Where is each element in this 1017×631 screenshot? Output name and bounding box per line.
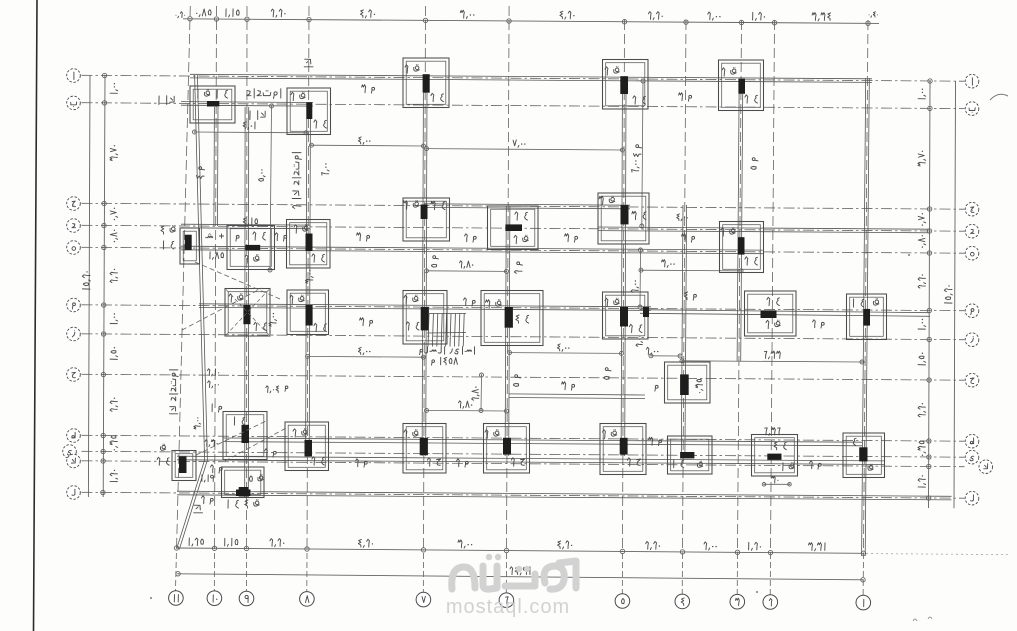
rotated label M4 on left slanted edge top [196,167,204,179]
label Q4 left of col-11 footing [172,227,176,231]
bottom dimension label ١,٢٠ [760,546,761,547]
left dimension label ٢,٢٠ [110,269,118,283]
grid row ح axis line [82,374,965,380]
right inner dimension line [929,81,931,508]
top dimension label ٣,٣٤ [828,13,831,21]
label 2,00 left area [218,384,219,385]
right dimension label ١,٠٠ [918,89,926,99]
column footing (rows F-G, cols 10-9) [225,289,270,337]
top dimension label ٠,٨٥ [208,10,211,15]
stair mid landing line [427,332,466,335]
beam label م ٤ at (690,291.5) [694,294,697,297]
slanted building edge line (imtedad KA), upper segment [195,75,205,460]
left dimension tick row A [102,73,106,77]
grid row ك axis line [82,461,965,467]
right dimension tick row F [927,308,931,312]
wall column on beam right of col-5 footing [643,307,649,317]
beam label م ٢ at (818,319.5) [821,322,824,325]
beam label م ٣ at (655,437) [659,440,662,443]
small column footing (rows D-E, col 11) [180,228,200,264]
left dimension label ١,٠٠ [110,83,118,93]
beam label م ٢ at (361,458.5) [364,461,367,464]
right dimension label ٢,٢٠ [918,403,926,417]
left dimension tick row C [102,201,106,205]
grid column 7 axis line [424,6,426,551]
axis bubble ٧ bottom [416,592,431,607]
left dimension tick row F [102,303,106,307]
column footing (rows F-G, col 5) [603,292,649,339]
column footing (rows H-T, col 11 area) [223,412,267,460]
slanted building edge line, lower segment to bottom-left [177,460,205,549]
rotated label KA bottom-left edge [194,505,203,513]
dimension 5,00 vertical line at x=271 [270,106,272,270]
bottom dimension label ١,٢٥ [201,539,204,544]
column footing (rows F-G, col 6) [481,291,543,346]
beam along row TA (tta) [223,442,862,446]
axis bubble ط right [965,434,979,448]
right dimension label ٠,٣٥ [918,441,926,456]
beam label م ٣ at (568,381.5) [572,384,575,387]
column footing (rows F-G, col 7) [403,291,447,345]
top dimension tick at column 10 [214,17,218,21]
axis bubble حـ left [67,368,81,382]
top dimension label ٢,٢٠ [284,13,285,14]
label M2 left of footing [219,467,222,470]
left outer boundary line [88,76,90,498]
beam along row E [181,250,763,254]
grid column 4 axis line [683,20,687,551]
axis bubble ز right [965,333,979,347]
grid column 11 stub to bubble [175,553,178,591]
right dimension label ٠,٧٠ [918,213,926,226]
right dimension label ٣,٧٠ [918,151,926,167]
beam along row D (right part) [598,231,930,233]
right dimension tick row C [927,207,931,211]
axis bubble و right [965,304,979,318]
axis bubble ى left [63,445,77,459]
label M small near 2,04 [285,386,288,389]
vertical beam on column 7 [422,93,423,456]
label 4,01 [254,122,256,129]
left dimension label ١,٥٠ [110,347,118,359]
grid column 10 axis line [215,6,217,551]
faint dotted extension of bottom dimension line to page edge [866,554,1011,555]
axis bubble ز left [67,327,81,341]
column footing (row K, col 4) [668,436,713,474]
dashed diagonal near footing Q bottom-left [196,421,266,455]
axis bubble ١٠ bottom [207,591,222,606]
watermark mostaql logo (gray) [452,561,576,589]
rotated label M 0,35 inside col-4 footing [696,379,703,393]
right dimension label ١,٢٠ [918,475,926,487]
axis bubble ٢ bottom [763,595,778,610]
grid row أ axis line [82,75,965,81]
svg-text:mostaql.com: mostaql.com [446,596,570,618]
top dimension label ١,٢٠ [764,16,765,17]
column footing (row H, col 4) [665,362,711,403]
grid row ز axis line [82,334,965,340]
bottom dimension label ٢,٢٠ [283,543,284,544]
bottom dimension tick at column 9 [244,546,248,550]
axis bubble ٩ bottom [239,591,254,606]
grid column 3 axis line [738,20,742,551]
axis bubble هـ right [965,246,979,260]
axis bubble ط left [67,429,81,443]
column footing (row A, col 5) [603,60,649,110]
beam label م ٣ at (571,233.5) [575,236,578,239]
grid row ى axis line [82,451,965,457]
left dimension tick row T [101,433,105,437]
top dimension tiny label 0,20 [184,15,185,16]
left dimension tick row H [101,372,105,376]
left dimension tick row K [101,459,105,463]
column footing (row G, col 1) [847,294,887,340]
grid column 9 axis line [246,6,249,551]
dimension 4,01 line under footing row B [195,131,307,134]
left dimension tick row B [102,101,106,105]
dimension 3,00 between columns 4 and 3 [641,269,741,272]
top dimension line [183,19,879,24]
axis bubble ك right [979,460,993,474]
bottom dimension tick at column 5 [620,549,624,553]
grid column 8 stub to bubble [306,553,308,591]
beam label م ٢ at (270,448.5) [273,451,276,454]
label M2 left of col-6 footing [472,300,475,303]
axis bubble ١ bottom [856,595,871,610]
dashed diagonal brace from col-11 footing to footing F9 [195,262,280,299]
right dimension tick row Y [927,455,931,459]
grid column 6 stub to bubble [505,553,507,593]
vertical beam on column 5 [621,94,622,456]
top dimension tick at column 5 [622,20,626,24]
grid column 9 stub to bubble [246,553,248,591]
rotated label M5 on column 5 lower [604,368,611,380]
label Ain2 left of bottom col-11 footing [167,458,169,460]
bottom dimension tick at column 7 [421,548,425,552]
grid column 4 stub to bubble [681,553,683,594]
top dimension tick at column 6 [507,19,511,23]
small arc mark top-right corner [990,94,1008,100]
bottom dimension tick at column 6 [504,548,508,552]
rotated label imtedad KA on left slanted edge [169,370,178,414]
dimension 6,00 vertical right of column 5 [642,81,643,226]
axis bubble ٨ bottom [300,592,315,607]
right dimension label ١,٥٠ [918,353,926,365]
beam label م ٣ at (368,84.5) [372,87,375,90]
grid row ب axis line [82,103,965,109]
axis bubble ٥ bottom [615,594,630,609]
vertical beam on column 1 [862,78,866,556]
column footing (rows T-Y, col 6) [484,424,530,474]
left dimension tick row D [102,223,106,227]
rotated label 3,00 near column 8 between rows E and F [305,270,313,283]
tiny dimension label at right end of top line [877,14,878,15]
grid column 5 axis line [623,20,625,551]
top dimension tick at column 7 [423,18,427,22]
axis bubble ك left [67,454,81,468]
overall bottom dimension line 24.91 [178,574,863,580]
left inner dimension line [103,76,105,498]
right overall dimension label 15,20 [944,285,952,303]
bottom dimension label ٣,٣١ [824,543,826,551]
column footing (row G, col 2) [745,291,797,336]
label KA 1 under row B beam [261,111,266,117]
vertical beam on column 6 [505,206,506,456]
rotated label M5 on column 3 [751,158,758,170]
bottom dimension label ١,١٥ [235,539,238,544]
right dimension tick row L [927,496,931,500]
dimension 6,33 between columns 4 and 1 [682,361,862,362]
label shin with plus [206,236,213,238]
bottom dimension label ٤,٢٠ [571,545,572,546]
label Q5 right [259,476,262,479]
label 2,00 right of 4,00 [657,351,658,352]
grid column 8 axis line [307,6,309,551]
axis bubble ب right [965,102,979,116]
dimension 2,80 between columns 7 and 6 upper [427,270,507,273]
right dimension tick row E [927,251,931,255]
grid column 3 stub to bubble [736,553,738,594]
label Ain1 left of col-11 footing [172,241,174,243]
right dimension tick row G [927,337,931,341]
left dimension label ٣,٧٠ [110,145,118,161]
left dimension tick row E [102,245,106,249]
bottom dimension tick at column 8 [305,547,309,551]
grid row ه axis line [82,247,965,253]
left dimension tick row L [101,490,105,494]
rotated dimension 2,00 near column 4 [639,250,642,307]
beam M2 between rows F and G (right part) [640,313,930,316]
right dimension tick row T [927,439,931,443]
page border scan line (left edge) [34,0,38,631]
bottom dimension tick at column 10 [212,546,216,550]
label Q left of bottom col-11 footing [162,445,165,448]
left dimension label ١,٠٠ [110,313,118,323]
stair label asayir alsolm [474,347,476,355]
beam along row C between footings [424,207,630,208]
label KA 1 on row B beam [170,96,175,102]
beam along row K (kaf) [177,460,884,465]
column footing (rows T-Y, col 8) [285,422,329,471]
beam label م ٢ at (470,233.5) [473,236,476,239]
column footing (rows C-D, col 6) [488,206,539,250]
beam stub along row D left cluster [181,227,310,230]
beam along row F (waw) [199,307,651,310]
bottom dimension line [177,548,864,553]
axis bubble ٣ bottom [730,594,745,609]
beam label م ٢ at (815,460.5) [818,463,821,466]
dimension 4,00 between columns 6 and 5 at row H [510,352,622,355]
grid row ل axis line [82,492,965,498]
label 1,85 below footing A7 [221,253,224,258]
label M1 above-left of footing [219,406,222,409]
axis bubble ٦ bottom [499,593,514,608]
rotated dimension 2,80 vertical near column 6 [480,375,483,411]
beam label م ٣ at (363,232.5) [367,235,370,238]
beam label م ٣ at (688,233.5) [692,236,695,239]
axis bubble حـ right [965,373,979,387]
column footing (rows D-E, col 3) [720,222,764,273]
dimension 4,00 between columns 8 and 7 at row H [308,355,424,358]
column footing (rows C-D, col 7) [403,198,450,241]
left dimension label ٠,٨٠ [110,230,117,243]
dimension 7,00 between columns 7 and 5 [427,149,623,150]
right dimension tick row K [927,464,931,468]
stair flight hatch lines [428,314,429,347]
right dimension tick row B [928,106,932,110]
rotated label M2 right of 2,80 [514,262,522,273]
axis bubble هـ left [67,241,81,255]
bottom dimension label ٣,٠٠ [471,544,472,545]
axis bubble ١١ bottom [169,591,184,606]
left dimension label ١,٢٠ [110,470,118,482]
top dimension label ٤,٢٠ [573,15,574,16]
grid column 2 stub to bubble [769,553,771,595]
top dimension tick at column 9 [245,17,249,21]
beam label م ٣ at (685,92.5) [689,95,692,98]
beam label م ٢ at (280.5,232.5) [284,235,287,238]
stair label 14/58 m [454,358,457,365]
axis bubble ل left [67,486,81,500]
column on row L col 9 (dark bar) [239,487,249,497]
rotated label imtedad KA 2 on column 8 [292,153,301,209]
axis bubble ٤ bottom [675,594,690,609]
right dimension tick row A [928,79,932,83]
grid column 1 stub to bubble [862,553,864,595]
column footing (rows T-Y, col 5) [600,424,646,475]
axis bubble و left [67,298,81,312]
label 4,00 near column 4 row C [687,217,688,218]
dashed diagonal inside footing (rows F-G cols 10-9) 2 [226,290,269,336]
vertical beam on column 4 [681,205,683,458]
left dimension label ٠,٧٠ [110,208,118,221]
top dimension tick at column 8 [307,17,311,21]
right dimension tick row H [927,378,931,382]
label 1,19 left bottom [211,475,214,478]
tiny stray marks bottom-right [913,617,932,621]
label 3,00 rotated right of column 4 lower [636,336,643,347]
beam label م ٢ at (462,458.5) [465,461,468,464]
vertical beam on column 8 [306,119,307,456]
bottom dimension label ٤,٢٠ [372,543,373,544]
grid row د axis line [82,225,965,231]
beam M3 intermediate between rows H and TA [509,398,645,399]
dimension 4,00 row G right part [651,355,680,357]
axis bubble د left [67,219,81,233]
bottom dimension tick at column 11 [174,546,178,550]
left dimension tick row G [101,332,105,336]
beam along row A (top strip beam) [190,78,872,83]
axis bubble د right [965,224,979,238]
dashed diagonal inside footing (rows F-G cols 10-9) 1 [226,290,269,336]
rotated label M5 on column 7 beam [431,256,438,268]
column footing (rows Y-K, col 1) [843,433,885,478]
grid row ج axis line [82,203,965,209]
axis bubble ب left [67,96,81,110]
bottom dimension tick at column 2 [768,550,772,554]
label 2,04 M [276,386,279,393]
right dimension label ١,٠٠ [918,319,926,329]
top dimension tick at column 4 [684,20,688,24]
top dimension tick at column 1 [866,21,870,25]
beam label م ٢ at (207,495.5) [210,498,213,501]
grid column 10 stub to bubble [213,553,215,591]
rotated label M4 right of column 5 [633,145,641,157]
label Q4 Ain1 below footing [255,501,259,505]
dimension 4,00 between columns 8 and 7 [312,144,424,147]
small dimension mark below col-2 footing [777,480,778,481]
rotated label 3,00+M near footing D9 [269,313,277,326]
small column footing (row K, col 11) [172,451,196,481]
rotated label KA on column 8 top [304,59,313,67]
top dimension label ٢,٢٠ [662,16,663,17]
grid column 1 axis line [864,20,869,551]
bottom dimension tick at column 4 [680,550,684,554]
rotated label M5 on column 6 lower [513,375,520,387]
column footing (rows D-E, col 8) [287,220,331,269]
axis bubble ل right [965,491,979,505]
bottom dimension tick at column 3 [735,550,739,554]
beam KA1 along row B (left) [181,104,313,107]
bottom dimension label ٢,٠٠ [715,546,716,547]
stair flight side line [428,313,466,315]
bottom dimension tick at column 1 [861,551,865,555]
grid column 7 stub to bubble [422,553,424,592]
column footing (rows T-Y, col 7) [403,424,446,474]
top dimension tick at column 2 [772,21,776,25]
top dimension tick at column 11 [188,17,192,21]
grid column 11 axis line [177,6,191,551]
axis bubble جـ right [965,202,979,216]
right dimension tick row D [927,229,931,233]
vertical beam on column 3 [737,94,739,361]
column footing (rows A-B, col 8) [287,88,331,135]
top dimension label ٤,٢٠ [374,14,375,15]
left dimension tick row Y [101,449,105,453]
top dimension label ٣,٠٠ [473,14,474,15]
column footing (rows C-D, col 5) [598,193,649,244]
column footing (row A, col 3) [719,60,764,111]
overall dimension label 24,91 [529,567,531,575]
right dimension label ٢,٢٠ [918,274,926,288]
column footing (rows D-E, cols 10-9) [227,226,275,270]
label 4,15 above footing A7 [255,219,258,224]
grid row و axis line [82,305,965,311]
label 3,00 rotated left of row H area [194,417,201,429]
right dimension label ٠,٨٠ [918,235,925,248]
axis bubble أ left [67,69,81,83]
label M left of col-4 footing [655,385,658,388]
column footing (rows F-G, col 8) [287,290,329,335]
beam along row L (lam) [177,495,952,500]
axis bubble ى right [965,450,979,464]
left dimension label ٢,٢٠ [110,398,118,412]
column footing (row K, col 2) [752,435,798,477]
column footing Q-A10 (row A, col 10) with column [190,86,235,123]
label 6,36 above row TA beam right [778,428,781,435]
dashed diagonal brace crossing [182,288,262,330]
label 2,30 sh left bottom [217,443,218,444]
left dimension label ٠,٣٥ [110,436,118,451]
grid column 2 axis line [771,20,775,551]
vertical beam on column 9 [244,107,246,497]
label imtedad (extension) row B [280,89,282,98]
column footing (row A, col 7) [403,58,449,108]
left overall dimension label 15,20 [82,271,90,289]
vertical beam on column 10 (from footing Q1 down to footing A7) [213,107,216,226]
bottom dimension label ٢,٢٠ [659,545,660,546]
top dimension tick at column 3 [739,20,743,24]
